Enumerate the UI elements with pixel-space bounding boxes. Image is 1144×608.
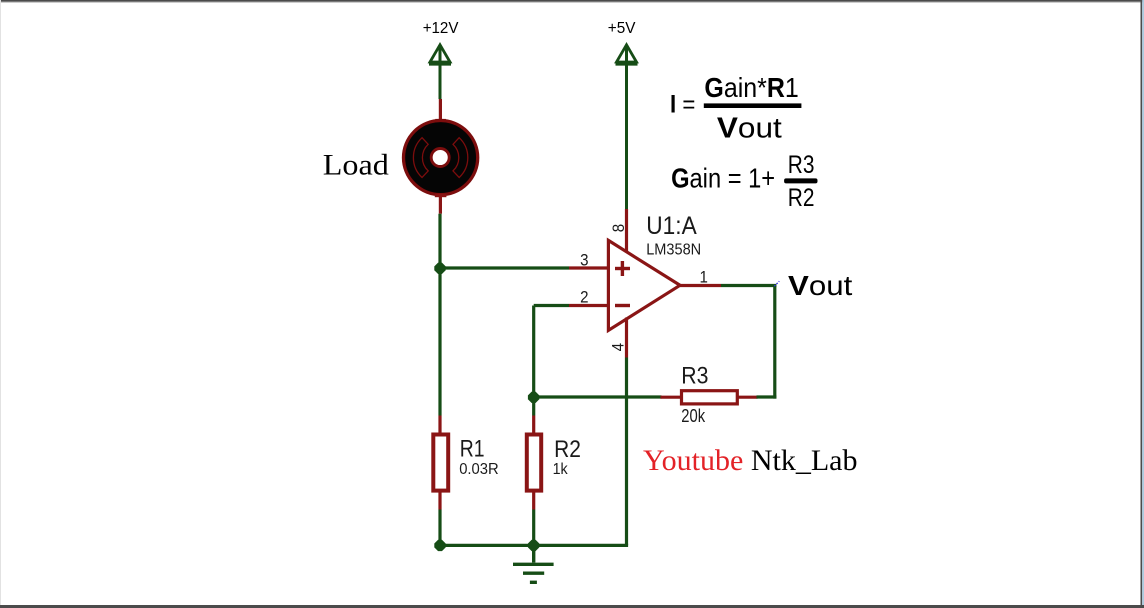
power symbol +12V xyxy=(429,45,451,99)
wire load to node A xyxy=(438,214,441,268)
wire R1 bottom xyxy=(438,510,441,546)
wire R2 bottom xyxy=(532,510,535,546)
wire node A to R1 xyxy=(438,268,441,416)
op-amp pin 3 stub xyxy=(569,250,608,269)
resistor R2 xyxy=(527,416,541,510)
ground symbol xyxy=(513,545,554,582)
wire output to corner xyxy=(721,284,776,287)
wire node A to op-amp pin 3 xyxy=(440,266,569,269)
formula I = Gain*R1 / Vout xyxy=(670,72,801,145)
svg-text:R1: R1 xyxy=(460,436,485,463)
op-amp pin 8 stub xyxy=(609,209,628,253)
svg-text:1: 1 xyxy=(700,268,708,287)
formula Gain = 1 + R3/R2 xyxy=(671,151,817,212)
wire corner down to R3 xyxy=(773,286,776,399)
svg-text:R3: R3 xyxy=(788,151,815,179)
svg-text:Youtube Ntk_Lab: Youtube Ntk_Lab xyxy=(643,444,857,477)
svg-text:+12V: +12V xyxy=(423,20,459,37)
svg-text:3: 3 xyxy=(580,250,588,269)
svg-text:Gain*R1: Gain*R1 xyxy=(704,72,798,103)
junction node B xyxy=(528,392,539,403)
ground rail wire xyxy=(440,544,628,547)
svg-text:R2: R2 xyxy=(554,436,581,463)
svg-text:R3: R3 xyxy=(681,362,708,389)
wire node B to R3 xyxy=(534,395,662,398)
power symbol +5V xyxy=(616,45,638,209)
svg-text:+5V: +5V xyxy=(608,20,636,37)
motor load (M) xyxy=(404,121,478,195)
node marker (blue tick) xyxy=(774,281,779,286)
svg-text:8: 8 xyxy=(609,224,628,232)
wire pin 4 to ground rail xyxy=(625,358,628,546)
op-amp pin 1 stub xyxy=(680,268,721,287)
svg-text:Vout: Vout xyxy=(788,270,853,301)
op-amp pin 2 stub xyxy=(569,287,608,306)
svg-text:20k: 20k xyxy=(681,406,706,426)
svg-text:Vout: Vout xyxy=(717,113,782,145)
svg-text:4: 4 xyxy=(609,343,628,351)
motor load pin bottom xyxy=(435,194,447,198)
wire pin 2 horizontal xyxy=(534,304,569,307)
svg-text:LM358N: LM358N xyxy=(646,242,701,259)
wire pin 2 down to node B xyxy=(532,306,535,398)
junction ground mid xyxy=(528,540,539,551)
svg-text:1k: 1k xyxy=(553,461,569,478)
svg-text:Gain = 1+: Gain = 1+ xyxy=(671,162,775,193)
wire R3 to Vout corner xyxy=(757,395,777,398)
svg-text:0.03R: 0.03R xyxy=(459,461,499,478)
junction ground left xyxy=(434,540,445,551)
svg-text:Load: Load xyxy=(323,148,389,181)
svg-text:2: 2 xyxy=(580,287,588,306)
power +12V label xyxy=(423,20,459,37)
resistor R1 xyxy=(433,416,448,510)
wire node B down to R2 xyxy=(532,397,535,416)
svg-text:R2: R2 xyxy=(788,184,815,212)
op-amp pin 4 stub xyxy=(609,318,628,358)
resistor R3 xyxy=(661,391,758,404)
op-amp U1:A xyxy=(608,240,680,330)
svg-text:U1:A: U1:A xyxy=(646,212,697,240)
power +5V label xyxy=(608,20,636,37)
motor load pin top xyxy=(439,99,442,121)
junction node A xyxy=(434,263,445,274)
svg-text:I =: I = xyxy=(670,91,695,119)
